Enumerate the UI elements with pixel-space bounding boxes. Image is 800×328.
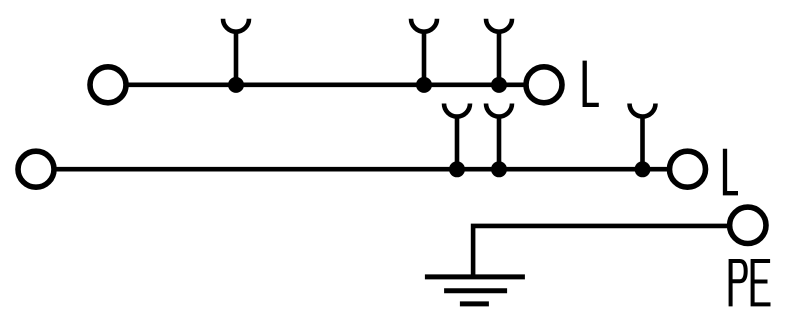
wire: PE to ground [473,226,730,275]
junction dot (row 1, x=424) [416,77,432,93]
terminal circle (row 1 left) [90,67,126,103]
label PE [731,261,771,306]
plug contact socket (row 1, x=499) [486,19,512,85]
junction dot (row 1, x=236) [228,77,244,93]
plug contact socket (row 1, x=236) [223,19,249,85]
label L (row 2) [725,149,738,194]
wire: L rail row 2 [54,167,669,172]
terminal circle (row 3 PE) [730,207,766,243]
plug contact socket (row 1, x=424) [411,19,437,85]
terminal circle (row 2 left) [18,151,54,187]
wire: L rail row 1 [126,83,526,88]
terminal circle (row 2 right) [670,151,706,187]
terminal circle (row 1 right) [526,67,562,103]
junction dot (row 2, x=499) [491,161,507,177]
ground symbol [425,277,525,304]
junction dot (row 2, x=457) [449,161,465,177]
junction dot (row 2, x=642.5) [635,161,651,177]
plug contact socket (row 2, x=457) [444,104,470,170]
plug contact socket (row 2, x=642.5) [630,104,656,170]
label L (row 1) [585,61,599,105]
junction dot (row 1, x=499) [491,77,507,93]
plug contact socket (row 2, x=499) [486,104,512,170]
